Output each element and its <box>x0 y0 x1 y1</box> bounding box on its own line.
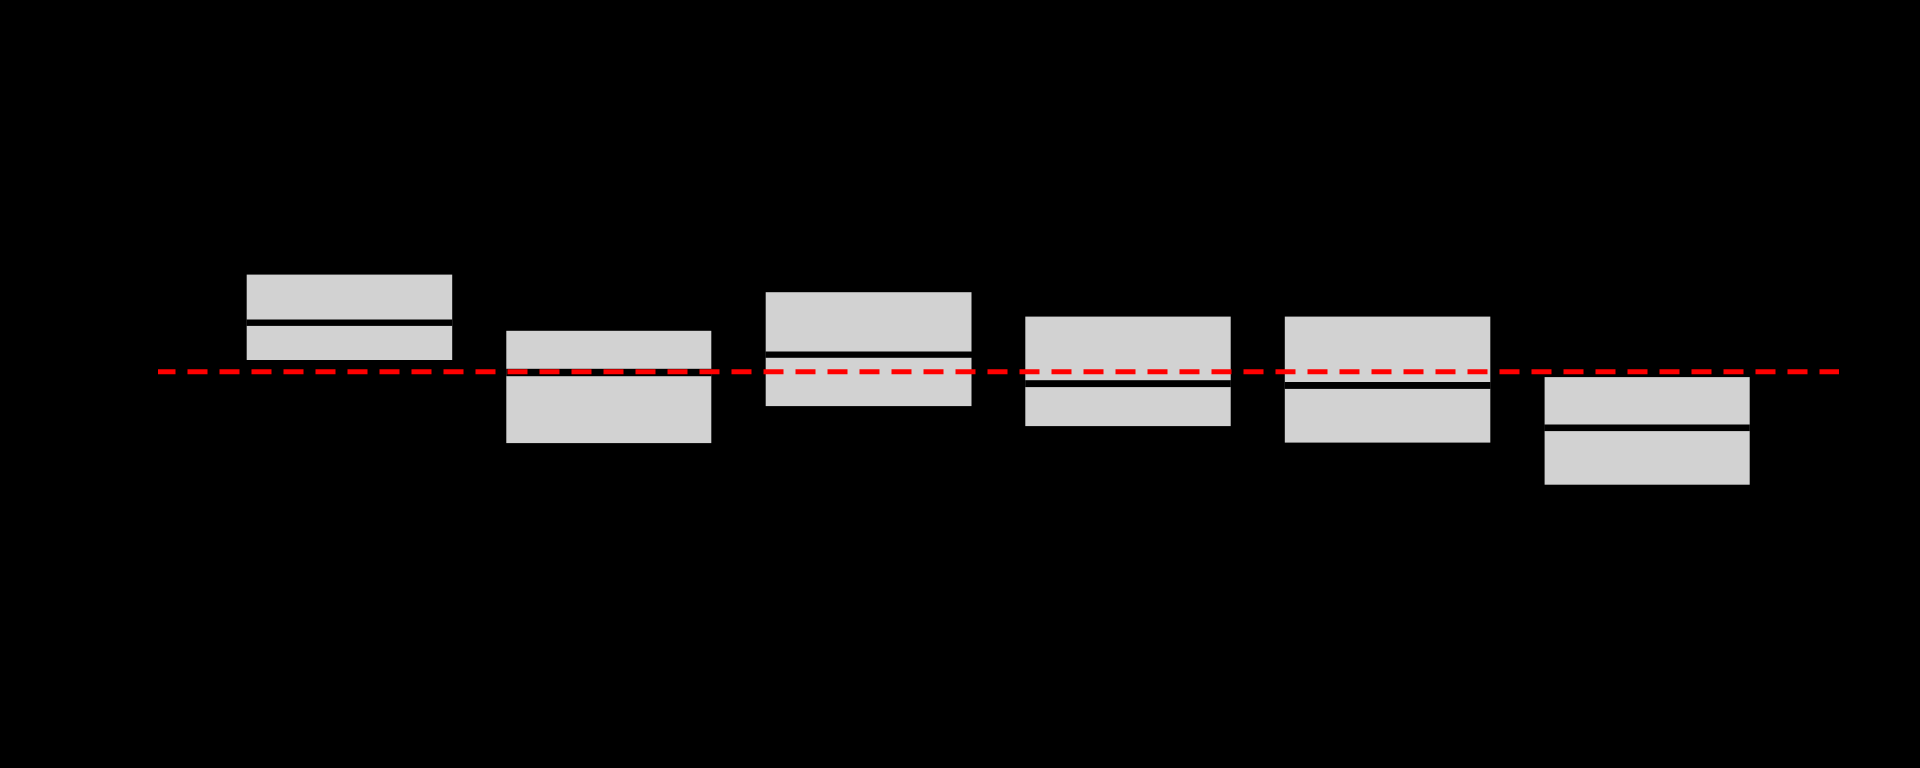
box 2 body <box>506 331 711 443</box>
box 2 median band <box>506 369 711 376</box>
box 4 median band <box>1025 380 1230 387</box>
box 1 median band <box>247 320 453 326</box>
box 5 body <box>1285 317 1491 443</box>
red dashed reference line <box>158 369 1839 374</box>
box 4 body <box>1025 317 1230 427</box>
box 3 body <box>766 292 972 406</box>
box 6 median band <box>1545 425 1750 432</box>
box 5 median band <box>1285 382 1491 389</box>
box 1 body <box>247 275 453 360</box>
box 3 median band <box>766 352 972 358</box>
box 6 body <box>1545 377 1750 485</box>
